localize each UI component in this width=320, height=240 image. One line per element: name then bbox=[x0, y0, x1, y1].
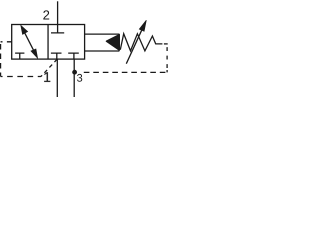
adjustment arrowhead bbox=[139, 20, 146, 31]
junction dot port 3 bbox=[72, 70, 77, 75]
port label 2 bbox=[43, 10, 49, 19]
blocked port T (right position, port 3 bottom) bbox=[68, 53, 79, 59]
pilot line dashed left vertical bbox=[0, 42, 2, 77]
port 3 line bbox=[73, 59, 75, 97]
blocked port T (right position, port 2 top) bbox=[51, 25, 64, 33]
flow path arrow (left position, double headed) bbox=[24, 31, 35, 52]
position divider bbox=[47, 25, 49, 60]
blocked port T (right position, port 1 bottom) bbox=[51, 53, 62, 59]
valve envelope box bbox=[12, 25, 85, 60]
dashed boundary right edge bbox=[166, 47, 168, 72]
port label 1 bbox=[44, 72, 50, 82]
flow arrowhead top bbox=[21, 25, 28, 34]
blocked port T (left position, port 1) bbox=[15, 53, 24, 59]
dashed boundary right corner dash bbox=[164, 43, 168, 45]
port label 3 bbox=[77, 74, 82, 82]
pilot chamber upper line bbox=[85, 33, 120, 35]
port 1 line bbox=[56, 59, 58, 97]
pilot line dashed diagonal to port 1 bbox=[41, 59, 57, 76]
pilot chamber lower line bbox=[85, 50, 120, 52]
pilot line dashed (from port 1 to left end) bbox=[1, 41, 12, 43]
flow arrowhead bottom bbox=[31, 49, 38, 58]
spring zigzag (adjustable) bbox=[120, 34, 162, 51]
adjustment arrow shaft bbox=[126, 30, 141, 64]
pilot line dashed bottom horizontal bbox=[1, 76, 41, 78]
pilot triangle (hydraulic pilot) bbox=[106, 35, 119, 51]
dashed boundary bottom bbox=[84, 71, 169, 73]
port 2 line bbox=[57, 1, 59, 24]
